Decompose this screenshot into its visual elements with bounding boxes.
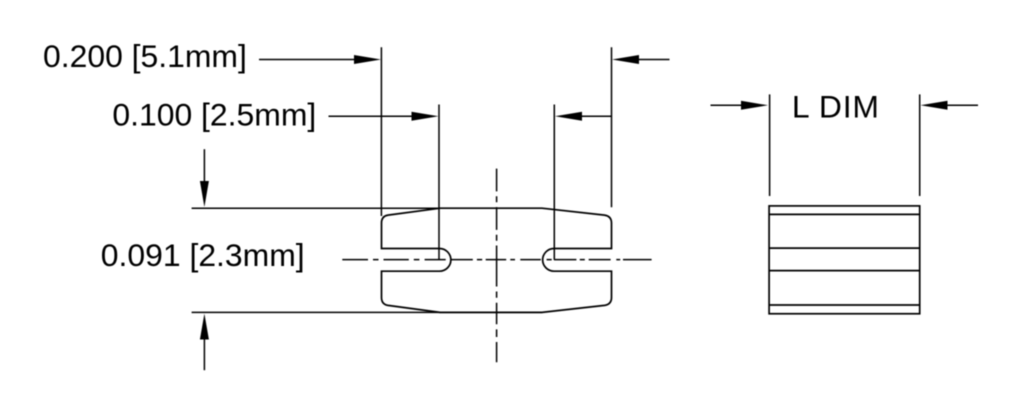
extension line side view right [919,94,921,196]
side view flange line top [769,213,920,215]
L DIM dimension line left [711,104,742,106]
extension line outer-left [380,47,382,216]
svg-text:0.091 [2.3mm]: 0.091 [2.3mm] [101,237,305,273]
extension line inner-right [553,105,555,260]
extension line 0.091 top [192,207,542,209]
arrowhead 0.100 pointing right [412,112,439,121]
side view flange line bottom [769,304,920,306]
arrowhead 0.200 pointing right [354,55,381,64]
arrowhead L DIM pointing right [741,101,768,110]
extension line outer-right [611,47,613,207]
svg-text:0.100 [2.5mm]: 0.100 [2.5mm] [112,97,316,133]
dimension line 0.100 left leader [329,115,413,117]
arrow 0.091 pointing down [203,149,205,182]
arrowhead 0.200 pointing left [612,55,639,64]
extension line side view left [769,94,771,196]
dimension line 0.200 right tail [639,59,670,61]
arrow 0.091 pointing up [203,339,205,371]
side view winding line lower [769,270,920,272]
arrowhead 0.100 pointing left [555,112,582,121]
svg-text:0.200 [5.1mm]: 0.200 [5.1mm] [43,38,247,74]
dimension line 0.100 right tail [582,115,611,117]
horizontal centerline [342,259,651,261]
side view winding line upper [769,247,920,249]
dimension line 0.200 left leader [259,59,355,61]
extension line 0.091 bottom [192,311,542,313]
component outline top view [382,208,612,312]
extension line inner-left [438,105,440,260]
vertical centerline [496,169,498,363]
side view body rectangle [769,206,920,314]
L DIM dimension line right [948,104,979,106]
arrowhead L DIM pointing left [921,101,948,110]
svg-text:L DIM: L DIM [792,88,880,124]
